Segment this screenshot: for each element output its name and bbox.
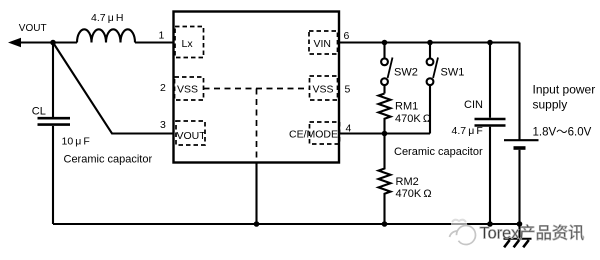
battery BT1 — [504, 140, 539, 148]
svg-text:SW1: SW1 — [441, 67, 465, 79]
internal dashed VSS bus vertical — [256, 89, 258, 163]
junction dot ground rail RM2 — [382, 221, 388, 227]
node: VOUT junction dot — [50, 40, 56, 46]
wire: VOUT node down to CL — [52, 43, 54, 118]
wire: battery to ground — [518, 150, 520, 239]
svg-text:VIN: VIN — [314, 38, 332, 50]
switch SW1 — [427, 43, 438, 134]
svg-text:Input power: Input power — [533, 82, 596, 96]
pin box Lx — [175, 27, 204, 58]
capacitor CIN — [475, 119, 506, 126]
wire: CIN to ground rail — [489, 127, 491, 224]
svg-text:SW2: SW2 — [394, 67, 418, 79]
capacitor CIN wire top — [489, 43, 491, 118]
svg-text:VSS: VSS — [313, 84, 334, 96]
svg-text:4.7 μ F: 4.7 μ F — [452, 125, 483, 137]
svg-text:3: 3 — [160, 119, 166, 131]
watermark logo — [450, 220, 478, 246]
switch SW2 — [381, 43, 392, 94]
wire: pin 6 VIN to battery branch — [339, 41, 520, 43]
svg-text:RM1: RM1 — [395, 101, 418, 113]
junction dot SW2 top — [382, 40, 388, 46]
svg-text:Ceramic capacitor: Ceramic capacitor — [394, 146, 483, 158]
pin box VSS right — [310, 76, 338, 100]
pin box VSS left — [175, 77, 204, 100]
resistor RM1 — [379, 94, 391, 134]
svg-text:470K Ω: 470K Ω — [396, 188, 432, 200]
pin box VOUT — [176, 121, 206, 145]
svg-text:Torex产品资讯: Torex产品资讯 — [480, 225, 585, 243]
svg-text:CL: CL — [32, 106, 46, 118]
wire: pin 4 CE/MODE to SW1 — [339, 132, 430, 134]
pin box CE/MODE — [289, 122, 340, 144]
wire: CL to ground rail — [52, 126, 54, 224]
svg-text:470K Ω: 470K Ω — [395, 113, 431, 125]
pin box VIN — [309, 31, 338, 54]
svg-text:10 μ F: 10 μ F — [62, 135, 90, 147]
ground rail wire — [53, 223, 520, 225]
svg-text:CIN: CIN — [464, 99, 483, 111]
svg-text:Lx: Lx — [182, 38, 194, 50]
junction dot ground rail battery — [517, 221, 523, 227]
resistor RM2 — [379, 134, 391, 225]
ground symbol — [504, 239, 532, 248]
svg-text:VOUT: VOUT — [177, 130, 207, 142]
junction dot ground rail CIN — [487, 221, 493, 227]
svg-text:supply: supply — [533, 97, 568, 111]
svg-text:6: 6 — [344, 30, 350, 42]
inductor L1 — [77, 29, 135, 42]
junction dot SW1 top — [427, 40, 433, 46]
svg-text:Ceramic capacitor: Ceramic capacitor — [64, 154, 153, 166]
junction dot ground rail VSS — [254, 221, 260, 227]
internal dashed VSS bus horizontal — [204, 88, 310, 90]
capacitor CL — [38, 118, 71, 124]
svg-text:CE/MODE: CE/MODE — [289, 129, 338, 141]
svg-text:VSS: VSS — [177, 84, 198, 96]
svg-text:5: 5 — [345, 84, 351, 96]
VOUT output arrow — [8, 38, 21, 47]
wire: arrow to inductor — [18, 41, 77, 43]
svg-text:1.8V～6.0V: 1.8V～6.0V — [533, 126, 592, 138]
wire: IC bottom VSS to ground rail — [255, 163, 257, 225]
wire: VOUT node diagonal to pin 3 — [53, 43, 174, 134]
svg-text:RM2: RM2 — [396, 176, 419, 188]
junction dot RM1/RM2 — [382, 131, 388, 137]
svg-text:1: 1 — [159, 30, 165, 42]
svg-text:VOUT: VOUT — [19, 23, 47, 34]
svg-text:4.7 μ H: 4.7 μ H — [91, 12, 123, 24]
junction dot CIN top — [487, 40, 493, 46]
svg-text:2: 2 — [160, 82, 166, 94]
wire: battery top — [518, 43, 520, 140]
wire: inductor to pin 1 — [135, 41, 174, 43]
IC U1 body — [174, 12, 340, 163]
